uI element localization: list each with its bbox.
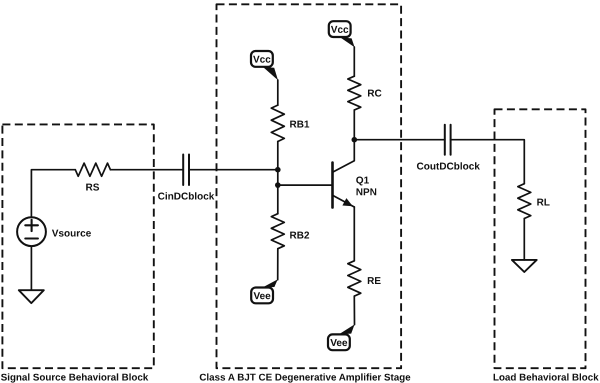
resistor RB2	[271, 214, 284, 249]
title Load Behavioral Block	[494, 373, 599, 380]
net flag Vee (below RB2)	[251, 279, 278, 303]
wire node A to node B	[277, 170, 279, 185]
voltage source Vsource	[17, 217, 46, 246]
resistor RC	[348, 76, 361, 110]
node B (base junction)	[275, 182, 281, 188]
net flag Vcc (above RC)	[329, 21, 355, 47]
node A (input/base divider junction)	[275, 167, 281, 173]
title Class A BJT CE Degenerative Amplifier Stage	[200, 373, 411, 382]
ground (load)	[512, 260, 537, 272]
wire CoutDCblock to RL	[451, 140, 525, 184]
wire RE to Vee flag	[353, 296, 355, 325]
label Vsource	[52, 230, 91, 237]
label RB1	[290, 121, 309, 128]
capacitor CinDCblock	[183, 155, 189, 186]
label Q1	[356, 177, 369, 186]
title Signal Source Behavioral Block	[1, 373, 148, 382]
wire Vsource bottom to ground	[30, 246, 32, 290]
wire output node to CoutDCblock	[354, 139, 445, 141]
transistor Q1	[333, 163, 355, 208]
wire CinDCblock to base node	[189, 169, 278, 171]
block Signal Source Behavioral Block (dashed border)	[2, 124, 153, 368]
wire input left (Vsource top to RS)	[31, 170, 75, 218]
resistor RB1	[271, 105, 284, 141]
resistor RS	[75, 163, 110, 176]
label NPN	[357, 188, 377, 195]
label Vee (RE flag)	[330, 339, 347, 346]
label RE	[368, 277, 381, 284]
resistor RL	[518, 184, 531, 219]
ground (signal source)	[19, 290, 44, 303]
label Vee (RB2 flag)	[254, 292, 271, 299]
label RB2	[290, 232, 309, 239]
label RS	[86, 184, 99, 191]
wire Vcc flag to RB1	[277, 80, 279, 105]
label Vcc (RB1 flag)	[253, 56, 270, 63]
wire node B to RB2	[277, 185, 279, 214]
wire RL to ground	[523, 219, 525, 260]
block Class A BJT CE Degenerative Amplifier Stage (dashed border)	[217, 4, 402, 368]
net flag Vcc (above RB1)	[251, 51, 278, 80]
wire RS to CinDCblock	[110, 169, 183, 171]
block Load Behavioral Block (dashed border)	[495, 109, 586, 368]
node C (collector/output junction)	[352, 137, 358, 143]
wire RC to output node	[353, 110, 355, 140]
wire Vcc flag to RC	[353, 47, 355, 76]
wire RB2 to Vee flag	[277, 249, 279, 280]
label CoutDCblock	[417, 162, 480, 169]
wire collector (node C to Q1 collector)	[333, 140, 355, 173]
wire emitter (Q1 to RE)	[353, 207, 355, 261]
resistor RE	[348, 261, 361, 296]
label Vcc (RC flag)	[331, 26, 348, 33]
wire base (node B to Q1 base)	[278, 184, 333, 186]
label CinDCblock	[158, 192, 214, 199]
capacitor CoutDCblock	[445, 125, 451, 155]
wire RB1 to node A	[277, 142, 279, 170]
net flag Vee (below RE)	[328, 324, 355, 350]
label RC	[368, 90, 382, 97]
label RL	[537, 199, 549, 206]
